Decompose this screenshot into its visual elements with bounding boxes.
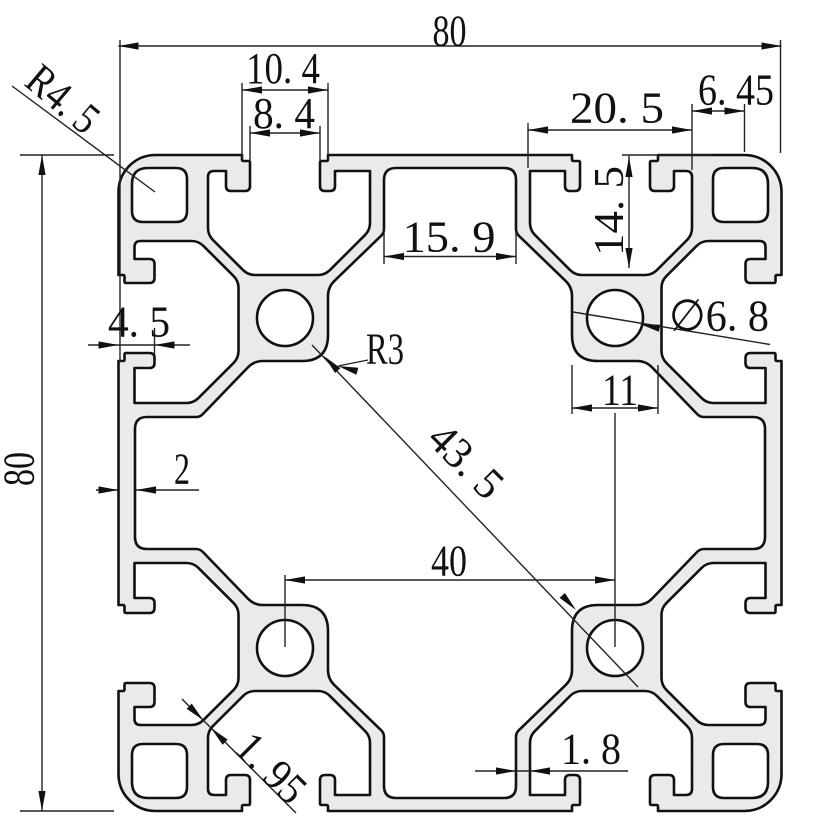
dimension 10.4 slot opening <box>242 83 328 160</box>
svg-text:10. 4: 10. 4 <box>246 44 320 93</box>
svg-text:6. 45: 6. 45 <box>698 66 774 115</box>
dimension 8.4 slot gap <box>250 126 320 161</box>
dimension 40 bore spacing <box>285 413 615 647</box>
dimension 43.5 diagonal <box>312 345 638 687</box>
dimension 11 node width <box>572 365 658 414</box>
svg-text:R3: R3 <box>366 325 404 374</box>
svg-text:15. 9: 15. 9 <box>403 213 496 262</box>
svg-text:8. 4: 8. 4 <box>253 89 315 138</box>
dimension 4.5 lip depth <box>88 328 190 356</box>
dimension 20.5 <box>528 104 692 170</box>
dimension 15.9 channel width <box>384 230 516 264</box>
svg-text:11: 11 <box>602 366 638 415</box>
svg-text:20. 5: 20. 5 <box>570 84 664 133</box>
svg-text:80: 80 <box>0 452 44 486</box>
aluminium 8080 extrusion profile cross-section: outer contour with eight T-slots, central cross-shaped cavity, four corner cavities and four bore holes <box>119 155 782 811</box>
svg-text:∅6. 8: ∅6. 8 <box>669 292 769 341</box>
svg-text:40: 40 <box>431 537 467 586</box>
leader R3 fillet radius <box>338 360 368 366</box>
svg-text:1. 8: 1. 8 <box>561 725 621 774</box>
dimension 1.8 web thickness <box>475 770 628 772</box>
dimension 2 wall thickness <box>96 489 199 491</box>
dimension 1.95 corner web thickness <box>182 699 296 813</box>
dimension 80 top overall width <box>119 40 782 362</box>
leader diameter 6.8 bore <box>573 312 770 345</box>
dimension 14.5 channel depth <box>622 155 712 268</box>
svg-text:4. 5: 4. 5 <box>108 298 170 347</box>
dimension 80 left overall height <box>20 155 114 811</box>
svg-text:2: 2 <box>174 445 190 494</box>
svg-text:80: 80 <box>433 7 467 56</box>
svg-text:14. 5: 14. 5 <box>587 166 633 256</box>
leader R4.5 corner radius <box>12 86 155 192</box>
dimension 6.45 <box>692 104 745 152</box>
